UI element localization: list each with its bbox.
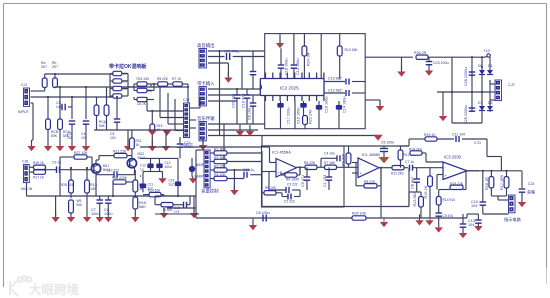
- wire: [140, 157, 178, 159]
- resistor R4c 100R: [281, 167, 300, 181]
- wire: [320, 34, 322, 79]
- capacitor C9 1u: [52, 161, 91, 173]
- capacitor C11c 104: [452, 133, 487, 146]
- svg-text:R1 3K3: R1 3K3: [214, 147, 226, 151]
- resistor R2 50K: [94, 97, 99, 130]
- wire: [167, 207, 196, 209]
- svg-text:R22 240: R22 240: [309, 110, 313, 124]
- capacitor C8c 4u7: [411, 168, 420, 192]
- wire: [54, 73, 56, 78]
- title 带卡拉OK混响板: [109, 63, 148, 70]
- ground: [51, 196, 59, 222]
- wire: [196, 150, 204, 218]
- svg-text:IC1 4558B: IC1 4558B: [362, 153, 380, 157]
- wire: [151, 172, 163, 179]
- capacitor C13b 100u: [156, 158, 172, 171]
- resistor R15c 1K: [424, 168, 432, 218]
- resistor R15b 56K: [133, 197, 146, 217]
- resistor R11b 2K2: [391, 166, 408, 176]
- svg-text:100u: 100u: [91, 212, 99, 216]
- svg-text:R19 10: R19 10: [424, 133, 435, 137]
- wire: [45, 74, 113, 78]
- wire rail: [110, 74, 113, 97]
- resistor Ra 2K7: [41, 61, 47, 88]
- resistor R2a 1K: [99, 87, 109, 130]
- transistor Q BG1 9014: [91, 164, 110, 173]
- svg-text:R17 1R0: R17 1R0: [500, 175, 504, 190]
- capacitor C3c 222: [269, 176, 300, 193]
- resistor R7 1K2: [172, 77, 189, 88]
- svg-text:R13 15K: R13 15K: [345, 48, 359, 52]
- connector CJ7: [495, 80, 515, 101]
- wire: [96, 156, 99, 164]
- ground: [27, 146, 35, 151]
- svg-text:R28 224: R28 224: [61, 183, 73, 187]
- capacitor C15b 174: [174, 196, 190, 214]
- ground: [131, 217, 139, 222]
- wire: [365, 56, 413, 58]
- capacitor C2c 223: [282, 190, 300, 204]
- svg-text:R24 51K: R24 51K: [148, 189, 161, 193]
- ground: [44, 146, 52, 151]
- capacitor C17 220u: [277, 101, 290, 129]
- svg-text:R18 2K0: R18 2K0: [409, 148, 422, 152]
- capacitor C21 100u: [177, 137, 193, 158]
- resistor R14c 910: [436, 190, 455, 214]
- ground: [373, 135, 383, 141]
- svg-text:D6: D6: [488, 64, 492, 68]
- ground: [104, 217, 112, 222]
- wire: [262, 172, 277, 177]
- ground brown: [379, 157, 390, 163]
- svg-text:14K: 14K: [90, 187, 97, 191]
- svg-text:C20 1u: C20 1u: [243, 168, 254, 172]
- svg-text:R27 10K: R27 10K: [74, 151, 88, 155]
- capacitor C5 100u: [380, 140, 394, 157]
- wire: [164, 195, 179, 213]
- svg-text:C20 104: C20 104: [232, 94, 236, 108]
- svg-text:R15 1K: R15 1K: [33, 161, 45, 165]
- diode D6: [487, 57, 493, 74]
- ground: [82, 146, 90, 151]
- resistor RCA 50K: [58, 86, 71, 146]
- resistor W2 50K: [155, 196, 176, 212]
- resistor Rm4: [110, 94, 128, 98]
- label AMP: [196, 163, 205, 167]
- resistor R6c 22K: [304, 161, 325, 170]
- wire: [471, 56, 473, 112]
- svg-text:50K: 50K: [77, 203, 84, 207]
- ground: [160, 213, 168, 218]
- capacitor C1c: [323, 167, 332, 190]
- capacitor C23 100u: [426, 57, 449, 70]
- wire: [467, 170, 479, 172]
- wire: [352, 163, 358, 187]
- resistor R5c 10K: [262, 186, 282, 195]
- resistor R16c 1R: [485, 170, 494, 196]
- ground: [474, 226, 482, 231]
- svg-text:R7 1K: R7 1K: [172, 77, 182, 81]
- svg-text:CJ7: CJ7: [508, 83, 515, 87]
- wire: [490, 80, 495, 112]
- ground: [425, 218, 433, 226]
- capacitor C10c 104: [471, 171, 486, 214]
- capacitor C25 2200u: [464, 105, 475, 124]
- ground: [163, 131, 171, 136]
- svg-text:R7 16K: R7 16K: [324, 161, 336, 165]
- svg-text:C12 682: C12 682: [328, 89, 342, 93]
- capacitor C7c 471: [301, 167, 310, 190]
- wire: [303, 34, 305, 46]
- ground: [96, 217, 104, 222]
- wire: [491, 196, 506, 200]
- resistor R19 1K: [150, 111, 163, 140]
- ground: [276, 34, 284, 49]
- wire: [208, 50, 265, 52]
- wire rail: [128, 84, 137, 91]
- resistor R1b 3K3: [211, 147, 263, 155]
- ground: [459, 233, 467, 238]
- ground: [83, 217, 91, 222]
- ground: [56, 146, 64, 151]
- resistor R18b 22K: [439, 170, 467, 190]
- resistor R9 22K: [342, 146, 351, 167]
- svg-text:2K7: 2K7: [52, 65, 58, 69]
- resistor R15 1K: [33, 161, 46, 170]
- svg-text:+12: +12: [483, 48, 491, 53]
- capacitor C1 113: [56, 101, 72, 110]
- svg-text:R4 10K: R4 10K: [214, 173, 226, 177]
- svg-text:音量控制: 音量控制: [201, 188, 219, 195]
- wire: [175, 99, 184, 131]
- wire: [408, 168, 410, 207]
- wire: [190, 97, 200, 128]
- svg-text:C11 104: C11 104: [452, 133, 465, 137]
- svg-text:C15 100u: C15 100u: [297, 108, 301, 124]
- svg-text:100u: 100u: [165, 165, 172, 169]
- capacitor C3 103: [67, 96, 75, 146]
- capacitor C14c 2u2: [169, 158, 182, 196]
- capacitor C20 104: [232, 88, 241, 108]
- wire: [481, 56, 483, 123]
- svg-text:R15 1K: R15 1K: [424, 185, 428, 198]
- diode D7: [478, 101, 485, 111]
- svg-text:R4 100R: R4 100R: [286, 178, 300, 182]
- ground: [68, 146, 76, 151]
- svg-text:C2 223: C2 223: [284, 200, 295, 204]
- wire: [293, 34, 295, 62]
- op-amp U IC1 4558A: [272, 150, 297, 178]
- svg-text:R8 22K: R8 22K: [364, 180, 376, 184]
- wire: [155, 213, 199, 215]
- wire: [237, 108, 247, 124]
- ground: [158, 178, 166, 183]
- resistor R22b 2K: [137, 88, 154, 93]
- svg-text:IC1 4558A: IC1 4558A: [272, 150, 291, 155]
- svg-text:C3 222: C3 222: [287, 183, 298, 187]
- wire: [218, 50, 220, 136]
- label 音乐伴输: [197, 115, 215, 122]
- ground: [439, 92, 447, 121]
- svg-text:C6 100u: C6 100u: [256, 211, 270, 215]
- svg-text:C10 222: C10 222: [107, 168, 120, 172]
- svg-text:R14 910: R14 910: [443, 198, 456, 202]
- capacitor C7b 1u: [405, 160, 443, 171]
- wire: [168, 93, 184, 124]
- capacitor C13 682: [324, 77, 365, 85]
- resistor Rb 2K7: [52, 61, 58, 88]
- capacitor C12c 104: [460, 214, 467, 233]
- wire bus: [94, 129, 184, 131]
- resistor R19 220K: [112, 176, 133, 184]
- connector MIC-IN: [21, 160, 33, 192]
- svg-text:R20 10K: R20 10K: [352, 212, 367, 216]
- capacitor C13c 104: [468, 214, 482, 227]
- svg-text:C5 100u: C5 100u: [381, 140, 394, 144]
- svg-text:C9 10u: C9 10u: [248, 108, 252, 120]
- svg-text:C25 2200u: C25 2200u: [464, 105, 468, 124]
- resistor R8 22K: [356, 167, 382, 188]
- wire: [208, 89, 265, 101]
- svg-text:C7 1u: C7 1u: [405, 160, 414, 164]
- wire: [187, 87, 189, 103]
- ground: [67, 213, 75, 222]
- svg-text:R11 2K2: R11 2K2: [391, 172, 404, 176]
- lamp LAMP: [189, 158, 205, 179]
- svg-text:50K: 50K: [99, 124, 106, 128]
- diode D8: [487, 80, 493, 111]
- svg-text:CJ8: CJ8: [22, 160, 28, 164]
- svg-text:R21 240: R21 240: [137, 77, 150, 81]
- svg-text:C6 2K: C6 2K: [137, 102, 147, 106]
- resistor R19c 10: [409, 133, 454, 141]
- resistor Rm3: [113, 86, 128, 91]
- wire rail: [128, 74, 137, 97]
- resistor R13 15K: [337, 46, 358, 79]
- ground: [124, 130, 132, 151]
- svg-text:1u3: 1u3: [56, 105, 62, 109]
- svg-text:56K: 56K: [139, 205, 146, 209]
- svg-text:指示电路: 指示电路: [504, 216, 522, 223]
- resistor W5 50K: [69, 199, 83, 214]
- svg-text:R2 3K3: R2 3K3: [214, 156, 226, 160]
- resistor R11 22K: [99, 150, 132, 159]
- resistor R21b 1K: [130, 130, 142, 156]
- ground: [189, 176, 197, 184]
- wire: [262, 206, 409, 208]
- wire: [140, 147, 262, 176]
- svg-text:50K: 50K: [51, 134, 58, 138]
- wire bus: [31, 96, 114, 98]
- svg-text:R18 22K: R18 22K: [450, 182, 464, 186]
- svg-text:104: 104: [468, 223, 474, 227]
- svg-text:R6 22K: R6 22K: [304, 161, 316, 165]
- svg-text:音箱: 音箱: [527, 189, 535, 195]
- resistor R21 240: [137, 77, 152, 87]
- capacitor C11b 2u2: [140, 172, 154, 193]
- wire: [29, 167, 56, 172]
- svg-text:带卡输入: 带卡输入: [197, 80, 215, 87]
- svg-text:C13 682: C13 682: [328, 77, 342, 81]
- wire: [379, 167, 392, 169]
- wire: [147, 97, 184, 112]
- box reverb module: [265, 34, 366, 129]
- label 带卡输入: [197, 80, 215, 87]
- capacitor C12 682: [324, 89, 365, 97]
- capacitor C24 音箱: [519, 171, 535, 202]
- svg-text:R11 22K: R11 22K: [113, 150, 127, 154]
- resistor Rm2: [113, 79, 128, 84]
- resistor R12 1K: [133, 170, 146, 197]
- op-amp U IC1 4558B: [358, 153, 380, 178]
- wire: [262, 147, 277, 163]
- resistor R13 14K: [85, 167, 98, 217]
- ground: [249, 218, 257, 230]
- svg-text:R9 22K: R9 22K: [342, 153, 346, 166]
- resistor R17 1K: [33, 170, 46, 180]
- connector CJ5 500POT: [180, 98, 194, 147]
- resistor R24b 51K: [143, 189, 164, 197]
- ground: [365, 100, 384, 111]
- capacitor C4 103: [81, 86, 89, 146]
- wire: [437, 91, 490, 93]
- capacitor C22 470u: [208, 50, 265, 90]
- resistor R20 10K: [352, 212, 367, 221]
- watermark: [10, 276, 80, 297]
- ground: [246, 125, 254, 136]
- resistor R23b 2K: [134, 97, 154, 106]
- wire: [214, 124, 224, 169]
- capacitor C15 100u: [295, 101, 301, 129]
- wire: [467, 214, 478, 218]
- wire bus: [196, 217, 467, 219]
- wire: [31, 103, 34, 146]
- svg-text:AMP: AMP: [196, 163, 205, 167]
- wire: [27, 183, 197, 196]
- wire: [112, 182, 114, 197]
- svg-text:R5 22K: R5 22K: [157, 77, 169, 81]
- resistor R25 1K: [302, 46, 311, 79]
- ground: [236, 124, 244, 136]
- ground: [397, 57, 405, 76]
- svg-text:C23 100u: C23 100u: [433, 61, 449, 65]
- svg-text:2u2: 2u2: [169, 183, 175, 187]
- capacitor C19 473: [242, 89, 251, 108]
- ground: [435, 227, 443, 232]
- resistor R5 22K: [151, 77, 173, 86]
- capacitor C6 100u: [256, 211, 270, 222]
- wire: [451, 57, 453, 123]
- connector CJ2: [199, 49, 206, 68]
- label 高音输出: [197, 42, 215, 49]
- ground: [230, 169, 238, 195]
- svg-text:INPUT: INPUT: [18, 110, 30, 114]
- resistor RCB 50K: [46, 96, 59, 146]
- wire: [452, 122, 482, 124]
- capacitor C4c 10u: [321, 152, 344, 168]
- svg-text:C14 190u: C14 190u: [343, 97, 347, 113]
- resistor R27 10K: [60, 151, 92, 165]
- svg-text:C9 471: C9 471: [301, 175, 305, 187]
- diode D5: [478, 64, 485, 75]
- capacitor C12b 1u: [140, 158, 154, 171]
- svg-text:R3 22K: R3 22K: [214, 164, 226, 168]
- wire: [437, 175, 443, 190]
- wire: [208, 124, 378, 147]
- resistor R18c 2K0: [409, 148, 443, 163]
- ground: [148, 140, 156, 151]
- svg-text:C17 220u: C17 220u: [287, 108, 291, 124]
- svg-text:IC3 2030: IC3 2030: [444, 155, 462, 160]
- op-amp U IC2 2025: [260, 73, 324, 102]
- svg-text:R5 10K: R5 10K: [265, 186, 277, 190]
- ground: [380, 218, 388, 227]
- capacitor C14b 100u: [316, 97, 329, 129]
- capacitor C9t 10u: [248, 95, 257, 124]
- ground: [199, 137, 207, 150]
- wire: [59, 157, 61, 196]
- svg-text:C8 4u7: C8 4u7: [411, 177, 415, 189]
- node +12: [483, 48, 491, 57]
- resistor R28 224: [61, 167, 73, 198]
- capacitor C18 100u: [278, 48, 289, 78]
- capacitor C20b 1u: [243, 168, 262, 179]
- wire: [467, 170, 522, 172]
- ground: [208, 63, 233, 83]
- svg-text:R16 1R: R16 1R: [485, 177, 489, 190]
- box op-amp stage: [262, 146, 345, 207]
- connector CJ1: [18, 83, 30, 114]
- svg-text:C26 2200u: C26 2200u: [464, 67, 468, 86]
- resistor R26 2R: [414, 51, 452, 59]
- svg-text:R26 2R: R26 2R: [414, 51, 427, 55]
- wire: [339, 34, 341, 46]
- svg-text:C1 103: C1 103: [323, 175, 327, 187]
- wire: [452, 56, 485, 58]
- resistor R23 240: [300, 101, 312, 129]
- wire: [262, 145, 409, 147]
- connector 音量控制: [201, 150, 219, 195]
- capacitor C10 222: [96, 168, 135, 178]
- resistor R13c 3R3: [409, 192, 423, 218]
- connector CJ3: [199, 87, 206, 106]
- resistor R17c 1R0: [500, 170, 509, 196]
- svg-text:高音输出: 高音输出: [197, 42, 215, 49]
- wire: [409, 139, 501, 171]
- connector CJ6 指示电路: [498, 195, 522, 223]
- svg-text:大眼跨境: 大眼跨境: [29, 282, 80, 297]
- wire: [296, 166, 305, 175]
- svg-text:104: 104: [471, 204, 477, 208]
- wire: [160, 87, 184, 118]
- wire: [153, 83, 155, 91]
- transistor Q BG2 9014: [127, 152, 145, 168]
- ground: [518, 202, 526, 207]
- wire: [31, 88, 45, 92]
- resistor R2b 3K3: [211, 156, 263, 164]
- svg-text:IC2 2025: IC2 2025: [280, 86, 299, 91]
- wire: [95, 173, 97, 196]
- svg-text:带卡拉OK混响板: 带卡拉OK混响板: [109, 63, 148, 70]
- resistor R3b 22K: [211, 164, 251, 172]
- svg-text:C19 473: C19 473: [242, 94, 246, 108]
- svg-text:D7: D7: [478, 101, 482, 105]
- svg-text:R19 220K: R19 220K: [112, 176, 128, 180]
- connector CJ4: [199, 122, 206, 141]
- svg-text:R13 3K3: R13 3K3: [413, 192, 417, 207]
- svg-text:C16 100u: C16 100u: [325, 97, 329, 113]
- svg-text:C9 47u: C9 47u: [443, 214, 454, 218]
